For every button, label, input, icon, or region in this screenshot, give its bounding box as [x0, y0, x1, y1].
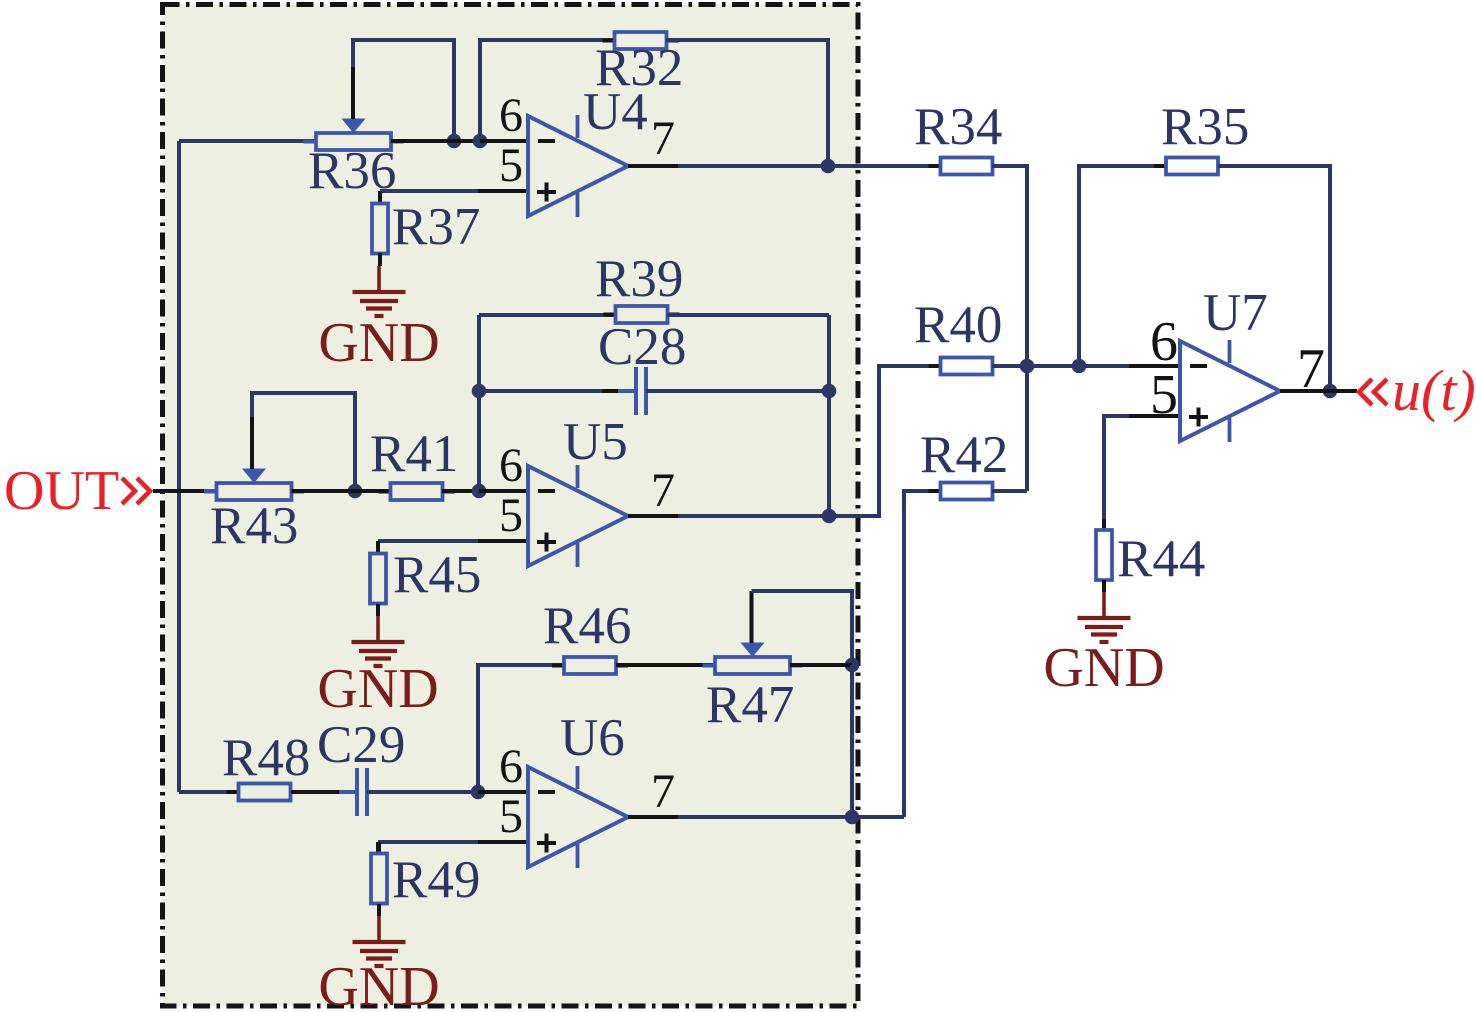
ground symbol GND1 (R37) — [353, 266, 406, 316]
svg-text:5: 5 — [499, 489, 523, 542]
wire U6 output link riser — [904, 491, 940, 817]
op-amp U5 non-inverting input marker — [537, 533, 556, 552]
filter-bank dashed boundary box border — [163, 5, 859, 1007]
resistor R37 body — [372, 193, 388, 265]
wire U5 feedback right riser — [827, 315, 831, 516]
svg-text:C29: C29 — [317, 716, 405, 774]
junction dot U4 inverting node — [473, 134, 488, 149]
wire U6 pin5 input — [378, 840, 528, 844]
ground symbol GND4 (R44) — [1078, 592, 1131, 642]
potentiometer R43 wiper arrow — [242, 469, 266, 484]
resistor R40 — [929, 358, 1005, 375]
svg-text:R48: R48 — [222, 729, 310, 787]
wire U5 output — [628, 514, 829, 518]
potentiometer R36 wiper arrow — [342, 119, 366, 134]
svg-text:U6: U6 — [560, 709, 625, 767]
wire U6 output — [628, 815, 904, 819]
resistor R32 — [603, 32, 679, 49]
svg-text:U5: U5 — [563, 413, 628, 471]
junction dot U5 feedback C28 left — [472, 384, 487, 399]
wire R45 to ground — [376, 604, 380, 616]
svg-text:GND: GND — [1043, 637, 1164, 699]
op-amp U7 power pins — [1228, 340, 1232, 442]
wire U4 feedback right — [666, 40, 828, 166]
resistor R42 — [929, 483, 1005, 500]
port u(t) chevron — [1359, 379, 1387, 405]
op-amp U4 power pins — [576, 115, 580, 217]
junction dot U5 feedback C28 right — [822, 384, 837, 399]
wire U7 output — [1280, 389, 1330, 393]
wire U7 pin6 stub — [1079, 364, 1180, 368]
resistor R49 body — [371, 843, 387, 915]
svg-text:GND: GND — [317, 658, 438, 720]
wire U4 feedback left riser — [480, 40, 615, 141]
wire R37 drop — [378, 191, 382, 204]
op-amp U4 non-inverting input marker — [537, 183, 556, 202]
wire C28 right — [646, 389, 829, 393]
wire U7 pin5 input — [1104, 414, 1180, 418]
svg-text:U7: U7 — [1203, 284, 1268, 342]
wire R42 to summing riser — [992, 489, 1027, 493]
junction dot U6 inverting node — [471, 785, 486, 800]
svg-text:R46: R46 — [543, 597, 631, 655]
wire stage3 input — [179, 790, 238, 794]
svg-text:R44: R44 — [1117, 530, 1205, 588]
ground symbol GND3 (R49) — [353, 916, 406, 966]
resistor R41 — [379, 483, 455, 500]
junction dot U5 inverting node — [472, 484, 487, 499]
junction dot U7 inverting node — [1072, 359, 1087, 374]
wire R45 drop — [376, 541, 380, 553]
wire R47 to output riser — [790, 663, 852, 667]
capacitor C29 — [323, 768, 403, 816]
svg-text:R41: R41 — [370, 425, 458, 483]
wire U7 output to port — [1330, 389, 1357, 393]
svg-text:R39: R39 — [595, 250, 683, 308]
wire U5 pin6 stub — [479, 489, 528, 493]
wire summing node to U7 — [1027, 364, 1079, 368]
wire U4 output — [628, 164, 828, 168]
wire U4 output to R34 — [828, 164, 940, 168]
junction dot R43 wiper node — [348, 484, 363, 499]
wire stage1 input — [179, 139, 316, 143]
resistor R46 — [552, 657, 628, 674]
svg-text:R35: R35 — [1161, 98, 1249, 156]
wire R48 to C29 — [291, 790, 357, 794]
op-amp U6 power pins — [576, 766, 580, 868]
svg-text:GND: GND — [318, 312, 439, 374]
wire R49 drop — [376, 842, 380, 852]
wire R37 to ground — [378, 253, 382, 266]
resistor R35 — [1154, 158, 1230, 175]
op-amp U7 inverting input marker — [1190, 364, 1207, 368]
wire R49 to ground — [377, 904, 381, 916]
junction dot U6 output node — [845, 810, 860, 825]
junction dot R47 wiper node — [845, 658, 860, 673]
svg-text:R34: R34 — [914, 98, 1002, 156]
wire R39 left — [479, 313, 616, 317]
op-amp U4 triangle — [528, 116, 628, 216]
wire R39 right — [667, 313, 829, 317]
junction dot U4 output node — [821, 159, 836, 174]
op-amp U5 inverting input marker — [538, 489, 555, 493]
resistor R39 — [604, 306, 680, 323]
svg-text:6: 6 — [499, 439, 523, 492]
op-amp U5 power pins — [576, 465, 580, 567]
wire R40 to summing node — [992, 364, 1027, 368]
svg-text:5: 5 — [1150, 364, 1178, 426]
junction dot U5 output node — [822, 509, 837, 524]
svg-text:GND: GND — [318, 956, 439, 1012]
svg-text:6: 6 — [499, 740, 523, 793]
svg-text:R43: R43 — [210, 497, 298, 555]
wire R34 to summing riser — [992, 166, 1027, 491]
op-amp U5 triangle — [528, 466, 628, 566]
wire R44 to ground — [1102, 580, 1106, 592]
svg-text:OUT: OUT — [4, 460, 119, 522]
svg-text:R47: R47 — [706, 676, 794, 734]
resistor R45 body — [370, 543, 386, 615]
wire C28 left — [479, 389, 636, 393]
wire U4 pin5 input — [380, 189, 528, 193]
svg-text:6: 6 — [499, 89, 523, 142]
op-amp U7 triangle — [1180, 341, 1280, 441]
resistor R34 — [929, 158, 1005, 175]
wire R36 wiper riser — [353, 40, 454, 141]
capacitor C28 — [602, 367, 682, 415]
wire U7 feedback right riser — [1218, 166, 1330, 391]
svg-text:U4: U4 — [583, 83, 648, 141]
wire input trunk vertical — [177, 141, 181, 792]
op-amp U7 non-inverting input marker — [1189, 408, 1208, 427]
svg-text:C28: C28 — [598, 318, 686, 376]
wire U5 pin5 input — [378, 539, 528, 543]
svg-text:u(t): u(t) — [1392, 358, 1476, 423]
wire U5 output link riser — [829, 366, 940, 516]
wire R41 to U5 inverting node — [442, 489, 480, 493]
op-amp U6 inverting input marker — [538, 790, 555, 794]
wire U6 feedback right riser — [850, 665, 854, 817]
wire U5 feedback left riser — [477, 315, 481, 491]
junction dot R36 wiper node — [447, 134, 462, 149]
wire R44 drop — [1102, 414, 1106, 521]
op-amp U4 inverting input marker — [538, 139, 555, 143]
op-amp U6 non-inverting input marker — [537, 834, 556, 853]
wire U6 pin6 stub — [478, 790, 528, 794]
resistor R44 body — [1096, 519, 1112, 591]
resistor R48 — [227, 784, 303, 801]
svg-text:5: 5 — [499, 790, 523, 843]
wire R36 to U4 inverting node — [391, 139, 480, 143]
wire U6 feedback left riser — [478, 665, 562, 792]
wire U7 feedback left riser — [1079, 166, 1166, 366]
svg-text:7: 7 — [651, 765, 675, 818]
svg-text:R40: R40 — [914, 296, 1002, 354]
wire C29 to U6 inverting node — [367, 790, 480, 794]
svg-text:R42: R42 — [920, 426, 1008, 484]
op-amp U6 triangle — [528, 767, 628, 867]
junction dot U7 output node — [1323, 384, 1338, 399]
potentiometer R36 body — [304, 133, 404, 150]
port OUT chevron — [122, 478, 150, 504]
filter-bank dashed boundary box fill — [163, 5, 859, 1007]
svg-text:R45: R45 — [393, 546, 481, 604]
wire U4 pin6 stub — [480, 139, 528, 143]
potentiometer R43 body — [204, 483, 304, 500]
potentiometer R47 wiper arrow — [741, 643, 765, 658]
junction dot summing node R40 — [1020, 359, 1035, 374]
ground symbol GND2 (R45) — [352, 616, 405, 666]
svg-text:R49: R49 — [392, 851, 480, 909]
svg-text:7: 7 — [651, 464, 675, 517]
wire R47 wiper riser — [752, 591, 853, 665]
wire R46 to R47 — [616, 663, 715, 667]
svg-text:R37: R37 — [392, 198, 480, 256]
wire R43 to R41 — [292, 489, 392, 493]
wire R43 wiper riser — [252, 393, 355, 491]
wire OUT input — [153, 489, 217, 493]
potentiometer R47 body — [703, 657, 803, 674]
svg-text:7: 7 — [651, 112, 675, 165]
svg-text:5: 5 — [499, 139, 523, 192]
